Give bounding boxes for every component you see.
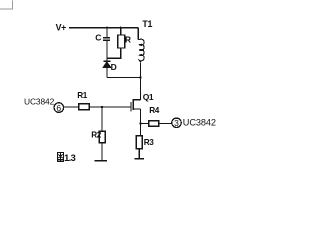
transistor Q1	[131, 92, 154, 112]
svg-text:1.3: 1.3	[64, 153, 76, 163]
pin 3 circle UC3842 right	[172, 118, 216, 129]
svg-text:UC3842: UC3842	[24, 96, 55, 106]
wire R1 to gate	[89, 106, 131, 108]
svg-text:6: 6	[56, 103, 61, 113]
node junction R4	[139, 122, 141, 124]
wire R bottom join	[107, 48, 121, 58]
svg-text:R3: R3	[144, 138, 155, 147]
node junction drain	[139, 76, 141, 78]
ground R2	[95, 160, 107, 162]
caption figure 1.3	[57, 152, 75, 163]
wire junction down to R2	[101, 107, 103, 131]
svg-text:R1: R1	[77, 91, 88, 100]
wire capacitor to diode	[106, 41, 108, 61]
resistor R4	[149, 106, 160, 126]
svg-text:T1: T1	[142, 19, 152, 29]
svg-text:V+: V+	[56, 23, 67, 33]
svg-text:R: R	[125, 34, 131, 44]
wire diode to bottom node	[106, 67, 108, 77]
resistor R1	[77, 91, 89, 110]
svg-text:R4: R4	[149, 106, 160, 115]
capacitor C	[95, 32, 110, 42]
resistor R2	[91, 130, 105, 143]
wire bottom horizontal to drain node	[107, 77, 141, 79]
wire junction down to Q1 drain	[140, 78, 142, 100]
svg-text:C: C	[95, 32, 101, 42]
wire R2 to ground	[101, 143, 103, 161]
wire transformer bottom to drain	[140, 63, 142, 78]
transformer T1	[138, 19, 152, 62]
svg-text:D: D	[111, 62, 117, 72]
wire Q1 source down	[140, 109, 142, 136]
svg-text:Q1: Q1	[143, 92, 154, 102]
ground R3	[135, 158, 145, 160]
wire R4 to pin 3	[159, 122, 172, 124]
svg-text:UC3842: UC3842	[183, 118, 216, 128]
wire rail to capacitor C	[106, 28, 108, 37]
wire V+ rail	[69, 27, 138, 29]
node junction C on rail	[106, 27, 108, 29]
diode D	[103, 61, 116, 72]
wire rail to transformer top	[137, 28, 139, 40]
wire source to R4	[141, 122, 149, 124]
svg-text:3: 3	[174, 118, 179, 128]
pin 6 circle UC3842 left	[24, 96, 64, 113]
wire pin6 to R1	[64, 106, 79, 108]
node junction R2	[101, 106, 103, 108]
resistor R	[118, 28, 131, 48]
resistor R3	[136, 136, 154, 149]
node junction R on rail	[120, 27, 122, 29]
wire R3 to ground	[138, 149, 140, 159]
